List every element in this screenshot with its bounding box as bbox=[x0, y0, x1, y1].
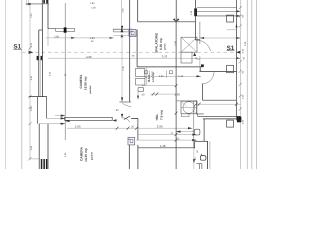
top dim extension stubs bbox=[26, 0, 28, 6]
radiator dark bars on wall top bbox=[37, 56, 39, 60]
left dim tick y48 bbox=[28, 47, 31, 50]
right dim chain vertical bbox=[239, 0, 241, 169]
short dim y115.6 bbox=[55, 115, 65, 117]
svg-text:1.48: 1.48 bbox=[160, 144, 166, 148]
kitchen appliance square with circle bbox=[181, 101, 197, 114]
dim line y58.2 full bbox=[48, 57, 241, 59]
dim marks right of cabinet bbox=[193, 53, 196, 56]
dim line y94.1 bbox=[150, 93, 176, 95]
hall door arc and leaf bbox=[122, 118, 130, 122]
top-right window line 1 bbox=[197, 7, 237, 9]
stair window mullion 2 bbox=[46, 0, 48, 3]
wall x204.1 bbox=[203, 119, 205, 141]
svg-text:4.90: 4.90 bbox=[86, 55, 92, 59]
svg-text:parchet: parchet bbox=[91, 152, 94, 160]
wall x195.3 bbox=[194, 0, 196, 40]
dim line y104.2 bbox=[196, 103, 240, 105]
left dim tick y107.5 bbox=[28, 106, 31, 109]
washbasin bbox=[138, 87, 144, 91]
window mullion dark bbox=[64, 27, 67, 32]
wall y147.8 bbox=[138, 147, 195, 149]
slash marks left of y104 bbox=[195, 103, 198, 106]
interior wall x65 bbox=[64, 3, 66, 140]
pier blob near 202 bbox=[201, 64, 204, 67]
wall x129.7 bbox=[129, 0, 131, 102]
left dimension chain vertical bbox=[29, 4, 31, 159]
wall y100.2 bbox=[202, 99, 236, 101]
bathtub bbox=[136, 69, 145, 77]
lower dim line y35.5 bbox=[113, 35, 136, 37]
svg-text:14.25 mp: 14.25 mp bbox=[84, 148, 88, 162]
svg-text:7.5 mp: 7.5 mp bbox=[159, 110, 163, 120]
svg-text:1.45: 1.45 bbox=[159, 75, 165, 78]
right dim ticks bbox=[239, 6, 242, 9]
wall line over kitchen square bbox=[176, 100, 197, 102]
section arrow right bbox=[236, 51, 241, 54]
svg-text:S1: S1 bbox=[227, 45, 235, 52]
svg-text:6.35 mp: 6.35 mp bbox=[159, 38, 163, 50]
corridor wall y66.9 bbox=[137, 66, 202, 68]
closet square with X bbox=[181, 37, 197, 52]
label S1 right underline bbox=[226, 50, 234, 52]
arrow right end y128 bbox=[188, 127, 193, 129]
symbol flue square 1 bbox=[129, 29, 136, 36]
bathroom left wall x137.1 bbox=[136, 30, 138, 67]
label BAIE rotated bbox=[147, 72, 155, 82]
dim line y118.4 bbox=[47, 117, 66, 119]
wall x176.2 top bbox=[175, 0, 177, 22]
bathroom door head y102 bbox=[119, 101, 131, 103]
washbasin dim edge bbox=[137, 92, 139, 99]
svg-text:parchet: parchet bbox=[89, 85, 92, 93]
dim arrow blob at (176,21) bbox=[173, 18, 176, 22]
dim line y38 top-right room width bbox=[200, 37, 241, 39]
wall x137.9 down to box bbox=[137, 118, 139, 140]
arrow on x65 at y121 bbox=[65, 120, 69, 122]
section arrow left bbox=[29, 51, 34, 54]
arrow x122 bottom bbox=[121, 97, 123, 101]
label S1 left underline bbox=[13, 49, 22, 51]
right exterior wall bbox=[236, 0, 238, 121]
wall cap y96.6 bbox=[29, 96, 47, 98]
vertical dim line x122 bbox=[121, 34, 123, 102]
WC room bbox=[195, 140, 208, 142]
svg-text:1.80: 1.80 bbox=[54, 35, 59, 38]
room label CAMERA bottom-left (rotated) bbox=[79, 146, 93, 162]
arrow right of furniture bbox=[112, 119, 116, 121]
bottom-left window mullion 2 bbox=[43, 159, 45, 169]
double wall y116-120 right bbox=[198, 115, 241, 117]
window band (two sashes) bbox=[56, 29, 75, 32]
dim line y140.1 bbox=[136, 139, 197, 141]
svg-text:2.95: 2.95 bbox=[157, 124, 163, 128]
wall x193.8 thin bbox=[193, 101, 195, 148]
svg-text:SPALATORIE: SPALATORIE bbox=[155, 33, 159, 53]
sheet fold line left outer bbox=[5, 0, 7, 169]
square marker lower right bbox=[227, 120, 234, 127]
svg-text:3.70: 3.70 bbox=[162, 55, 168, 59]
small arrow on wall x236.5 y26 bbox=[235, 24, 237, 27]
wall step at y30 bbox=[39, 29, 43, 31]
bottom-left wall inner bbox=[47, 124, 49, 169]
fixture edge line bbox=[146, 68, 148, 86]
wall x137.7 top bbox=[137, 0, 139, 22]
svg-text:1.80: 1.80 bbox=[90, 2, 95, 5]
door head band x113-133 bbox=[113, 28, 133, 30]
furniture long rect bbox=[65, 117, 113, 120]
sheet fold line left inner bbox=[21, 0, 23, 169]
dim line y131.3 partial bbox=[176, 131, 194, 133]
stair window mullion 1 bbox=[43, 0, 45, 3]
stair bay top line bbox=[29, 3, 49, 5]
wall x176 full bbox=[175, 22, 177, 169]
wall y22.3 bbox=[138, 21, 196, 23]
long dim line y128 bbox=[67, 127, 193, 129]
svg-text:CAMERA: CAMERA bbox=[79, 146, 83, 161]
dim line y134.6 bbox=[138, 134, 197, 136]
dim arrow blob on band bbox=[120, 28, 123, 32]
wall jog x200.4 bbox=[199, 67, 201, 72]
svg-text:BAIE: BAIE bbox=[147, 75, 151, 82]
section line S1 (dashed) bbox=[22, 51, 241, 53]
left exterior wall mid bbox=[40, 56, 42, 97]
door jamb marks corridor bbox=[144, 71, 147, 74]
svg-text:1.80: 1.80 bbox=[90, 37, 96, 40]
svg-text:16.96 mp: 16.96 mp bbox=[84, 77, 88, 91]
square marker mid right bbox=[227, 65, 234, 72]
left exterior wall inner bbox=[41, 30, 43, 97]
door arc top right room bbox=[196, 40, 211, 51]
top-right window line 3 bbox=[197, 15, 241, 17]
small box under kitchen square bbox=[182, 114, 190, 117]
short dim line y29.8 bbox=[227, 29, 237, 31]
door arc right room 2 bbox=[202, 72, 214, 84]
sheet border line right 3 bbox=[255, 0, 257, 169]
svg-text:CAMERA: CAMERA bbox=[79, 74, 83, 89]
svg-text:4.15 mp: 4.15 mp bbox=[152, 72, 155, 82]
svg-text:1.90: 1.90 bbox=[174, 93, 180, 97]
toilet fixture mid right bbox=[194, 129, 200, 135]
bottom wall pair from blue box bbox=[128, 145, 130, 169]
bottom-left window mullion 1 bbox=[41, 159, 43, 169]
sheet border line right 1 bbox=[246, 0, 248, 169]
wall link to window bbox=[48, 28, 56, 30]
dim line y158.9 bbox=[29, 158, 40, 160]
arrow at x121.3 bottom bbox=[121, 26, 123, 30]
bottom-left window mullion 3 bbox=[46, 159, 47, 169]
dim line y76.3 bbox=[143, 75, 201, 77]
wall pier dark x194.5 bbox=[194, 8, 197, 16]
left wall lower outer bbox=[36, 97, 38, 124]
dim line y85.7 bbox=[142, 85, 176, 87]
svg-text:gresie: gresie bbox=[163, 43, 166, 50]
top-right window line 2 bbox=[197, 10, 241, 12]
tick on x176 at 113 bbox=[175, 112, 178, 115]
dim 90 above right door bbox=[197, 59, 200, 61]
WC door bottom bbox=[196, 163, 202, 165]
left wall lower inner bbox=[46, 97, 48, 119]
lower cabinet rect bbox=[181, 52, 192, 63]
corridor wall y71.5 bbox=[199, 71, 236, 73]
svg-text:HOL: HOL bbox=[155, 114, 159, 121]
dim line x193.9 with arrow bbox=[193, 148, 195, 169]
svg-text:2.30: 2.30 bbox=[91, 7, 96, 10]
bottom-left wall outer bbox=[38, 124, 40, 169]
toilet in WC bbox=[200, 156, 206, 161]
svg-text:1.05: 1.05 bbox=[75, 125, 81, 129]
left exterior wall outer bbox=[38, 30, 40, 97]
vertical dim line x121.3 bbox=[120, 0, 122, 30]
dim line y37.9 bbox=[46, 37, 114, 39]
room label HOL (rotated) bbox=[155, 110, 163, 121]
wall y118.4 x131-138 bbox=[131, 117, 138, 119]
dark corner blob right bbox=[237, 117, 241, 123]
top dim line with arrow bbox=[26, 3, 43, 5]
sheet border line right 2 bbox=[251, 0, 253, 169]
left dim tick y158.9 bbox=[28, 157, 31, 160]
symbol flue square 2 bbox=[128, 137, 135, 145]
bathroom door arc bbox=[122, 103, 131, 106]
shower tray bbox=[136, 78, 145, 85]
dim line y123.7 bbox=[39, 123, 65, 125]
room label CAMERA mid-left (rotated two lines) bbox=[79, 74, 92, 94]
left dim tick y123.7 bbox=[28, 122, 31, 125]
wall step right of kitchen bbox=[197, 100, 204, 114]
slash ticks on y128 bbox=[116, 127, 119, 130]
jamb x199.9 bbox=[199, 22, 201, 44]
stair bay right wall bbox=[47, 0, 49, 29]
room label SPALATORIE top-middle (rotated) bbox=[155, 33, 167, 53]
square marker top right bbox=[227, 15, 234, 22]
left dim tick y96.6 bbox=[28, 95, 31, 98]
stair bay left wall bbox=[41, 0, 43, 30]
svg-text:1.15: 1.15 bbox=[178, 75, 184, 78]
